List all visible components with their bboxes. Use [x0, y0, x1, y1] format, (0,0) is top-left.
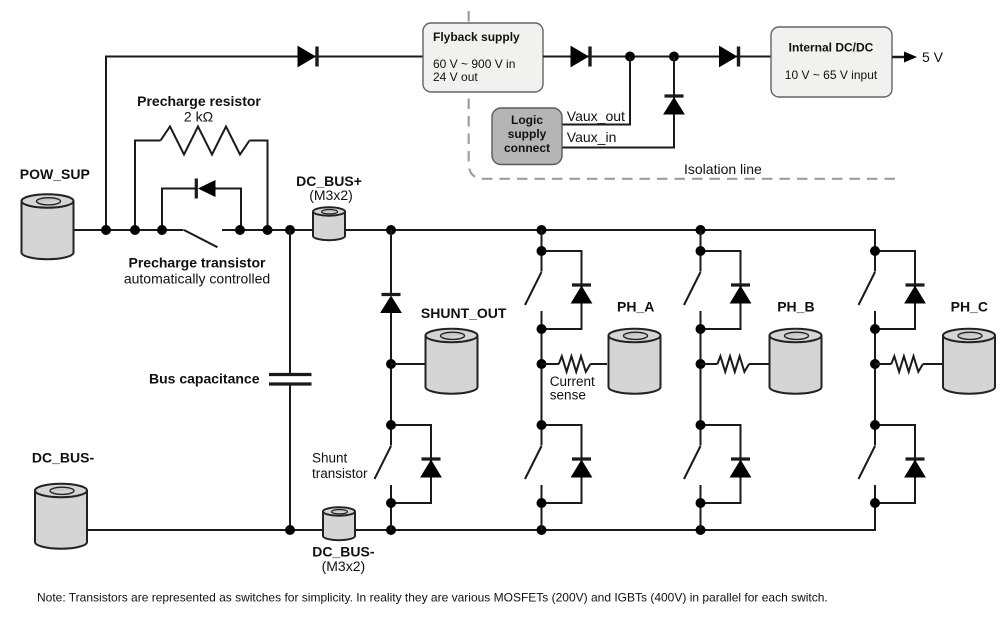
- svg-text:automatically controlled: automatically controlled: [124, 271, 270, 287]
- Internal DC/DC box: [771, 27, 892, 97]
- wire shunt leg: bus to diode: [390, 230, 392, 294]
- wire Vaux_in: [562, 57, 674, 148]
- svg-text:10 V ~ 65 V input: 10 V ~ 65 V input: [785, 68, 878, 82]
- wire bus capacitance bottom lead: [289, 386, 291, 531]
- isolation line (dashed): [469, 11, 896, 179]
- svg-text:Isolation line: Isolation line: [684, 161, 762, 177]
- PH_A high-side transistor (switch): [525, 251, 542, 329]
- svg-text:(M3x2): (M3x2): [309, 187, 353, 203]
- svg-text:supply: supply: [508, 127, 547, 141]
- PH_C high-side freewheel diode: [875, 251, 925, 329]
- diode D4: [720, 47, 739, 67]
- svg-text:(M3x2): (M3x2): [322, 558, 366, 574]
- current sense resistor: [559, 356, 591, 372]
- node: PH_B leg top: [696, 225, 706, 235]
- wire PH_B leg: low cell to bottom rail: [700, 503, 702, 530]
- diode D3 (Vaux_in to rail): [664, 96, 684, 114]
- node current-sense tap: [870, 359, 880, 369]
- node: [386, 498, 396, 508]
- wire bottom DC rail with corner up into PH_C leg: [86, 503, 875, 530]
- terminal DC_BUS- (cylinder): [35, 484, 87, 549]
- svg-text:24 V out: 24 V out: [433, 70, 478, 84]
- wire PH_C leg: mid section: [874, 329, 876, 425]
- svg-text:PH_C: PH_C: [951, 299, 988, 315]
- resistor R1 zigzag: [161, 127, 250, 155]
- node: shunt leg top: [386, 225, 396, 235]
- capacitor C1 plates: [269, 375, 312, 385]
- node on 24V rail (Vaux_out tap): [625, 52, 635, 62]
- shunt transistor (switch): [375, 425, 392, 503]
- shunt top diode (points up): [381, 295, 401, 313]
- node: PH_A leg bottom: [537, 525, 547, 535]
- wire PH_C current sense left lead: [875, 363, 891, 365]
- svg-text:DC_BUS-: DC_BUS-: [32, 450, 95, 466]
- node: [537, 420, 547, 430]
- svg-text:Internal DC/DC: Internal DC/DC: [789, 41, 874, 55]
- wire precharge diode branch right: [216, 189, 242, 231]
- wire PH_B leg: mid section: [700, 329, 702, 425]
- node SHUNT_OUT junction: [386, 359, 396, 369]
- wire PH_A leg: mid section: [541, 329, 543, 425]
- Logic supply connect box: [492, 108, 562, 165]
- svg-text:Bus capacitance: Bus capacitance: [149, 371, 260, 387]
- node: [870, 246, 880, 256]
- node: shunt leg bottom: [386, 525, 396, 535]
- node on 24V rail (Vaux_in tap): [669, 52, 679, 62]
- svg-text:connect: connect: [504, 141, 550, 155]
- wire shunt leg: cell to bottom rail: [390, 503, 392, 530]
- node: [870, 498, 880, 508]
- diode D2: [571, 47, 590, 67]
- wire PH_B current sense left lead: [701, 363, 718, 365]
- wire PH_A leg: bus to high cell: [541, 230, 543, 251]
- node: precharge diode left: [157, 225, 167, 235]
- PH_B low-side transistor (switch): [684, 425, 701, 503]
- wire bus capacitance top lead: [289, 230, 291, 373]
- svg-text:Logic: Logic: [511, 113, 543, 127]
- PH_C low-side transistor (switch): [859, 425, 876, 503]
- 5V output arrow: [892, 56, 906, 59]
- svg-text:2 kΩ: 2 kΩ: [184, 109, 213, 125]
- PH_C low-side freewheel diode: [875, 425, 925, 503]
- wire shunt leg: diode to lower cell: [390, 312, 392, 425]
- wire PH_B current sense right lead: [749, 363, 769, 365]
- current sense resistor: [891, 356, 923, 372]
- node: [386, 420, 396, 430]
- wire main DC bus (left of precharge switch): [73, 229, 184, 231]
- wire PH_A current sense left lead: [542, 363, 559, 365]
- svg-text:60 V ~ 900 V in: 60 V ~ 900 V in: [433, 57, 515, 71]
- terminal DC_BUS- bottom (small cylinder): [323, 507, 355, 540]
- terminal PH_A (cylinder): [609, 329, 661, 394]
- node: precharge diode right: [235, 225, 245, 235]
- node current-sense tap: [537, 359, 547, 369]
- node: [696, 246, 706, 256]
- wire precharge diode branch left: [162, 189, 195, 231]
- wire Vaux_out: [562, 57, 630, 125]
- svg-text:POW_SUP: POW_SUP: [20, 166, 90, 182]
- precharge diode (points left): [195, 179, 198, 199]
- svg-text:Precharge resistor: Precharge resistor: [137, 93, 261, 109]
- wire precharge resistor branch right: [250, 141, 268, 231]
- node: [870, 324, 880, 334]
- terminal PH_C (cylinder): [943, 329, 995, 394]
- node: [696, 420, 706, 430]
- PH_A low-side transistor (switch): [525, 425, 542, 503]
- svg-text:transistor: transistor: [312, 466, 368, 481]
- node: PH_A leg top: [537, 225, 547, 235]
- svg-text:Precharge transistor: Precharge transistor: [129, 255, 266, 271]
- node: [696, 498, 706, 508]
- PH_B low-side freewheel diode: [701, 425, 751, 503]
- svg-text:PH_B: PH_B: [777, 299, 814, 315]
- Flyback supply box: [423, 23, 543, 92]
- node current-sense tap: [696, 359, 706, 369]
- shunt freewheel diode branch: [391, 425, 441, 503]
- terminal POW_SUP (cylinder): [22, 194, 74, 259]
- PH_C high-side transistor (switch): [859, 251, 876, 329]
- PH_A high-side freewheel diode: [542, 251, 592, 329]
- wire main DC bus (right portion) with corner down into PH_C leg: [222, 230, 875, 251]
- node: [696, 324, 706, 334]
- current sense resistor: [717, 356, 749, 372]
- wire from bus node up to Flyback supply: [106, 57, 423, 231]
- wire PH_B leg: bus to high cell: [700, 230, 702, 251]
- precharge transistor switch blade: [184, 230, 217, 247]
- node: precharge resistor right: [263, 225, 273, 235]
- wire precharge resistor branch left: [135, 141, 161, 231]
- wire PH_A current sense right lead: [590, 363, 607, 365]
- svg-text:sense: sense: [550, 388, 586, 403]
- node: bus capacitance top: [285, 225, 295, 235]
- svg-text:Vaux_out: Vaux_out: [567, 108, 625, 124]
- svg-text:Flyback supply: Flyback supply: [433, 30, 520, 44]
- terminal DC_BUS+ (small cylinder): [313, 207, 345, 240]
- wire flyback output to internal dc/dc: [543, 56, 771, 58]
- wire to SHUNT_OUT terminal: [391, 363, 426, 365]
- terminal SHUNT_OUT (cylinder): [426, 329, 478, 394]
- PH_B high-side freewheel diode: [701, 251, 751, 329]
- node: precharge resistor left: [130, 225, 140, 235]
- wire PH_C current sense right lead: [923, 363, 943, 365]
- svg-text:PH_A: PH_A: [617, 299, 654, 315]
- svg-text:Vaux_in: Vaux_in: [567, 129, 617, 145]
- svg-text:Note: Transistors are represen: Note: Transistors are represented as swi…: [37, 591, 828, 605]
- node: PH_B leg bottom: [696, 525, 706, 535]
- terminal PH_B (cylinder): [770, 329, 822, 394]
- svg-text:Shunt: Shunt: [312, 451, 348, 466]
- node: [537, 498, 547, 508]
- PH_B high-side transistor (switch): [684, 251, 701, 329]
- node: flyback feed tap on DC bus: [101, 225, 111, 235]
- svg-text:5 V: 5 V: [922, 49, 944, 65]
- diode D1 (input to flyback): [298, 47, 317, 67]
- node: [537, 324, 547, 334]
- wire PH_A leg: low cell to bottom rail: [541, 503, 543, 530]
- svg-text:SHUNT_OUT: SHUNT_OUT: [421, 305, 507, 321]
- node: [870, 420, 880, 430]
- node: bus capacitance bottom: [285, 525, 295, 535]
- node: [537, 246, 547, 256]
- PH_A low-side freewheel diode: [542, 425, 592, 503]
